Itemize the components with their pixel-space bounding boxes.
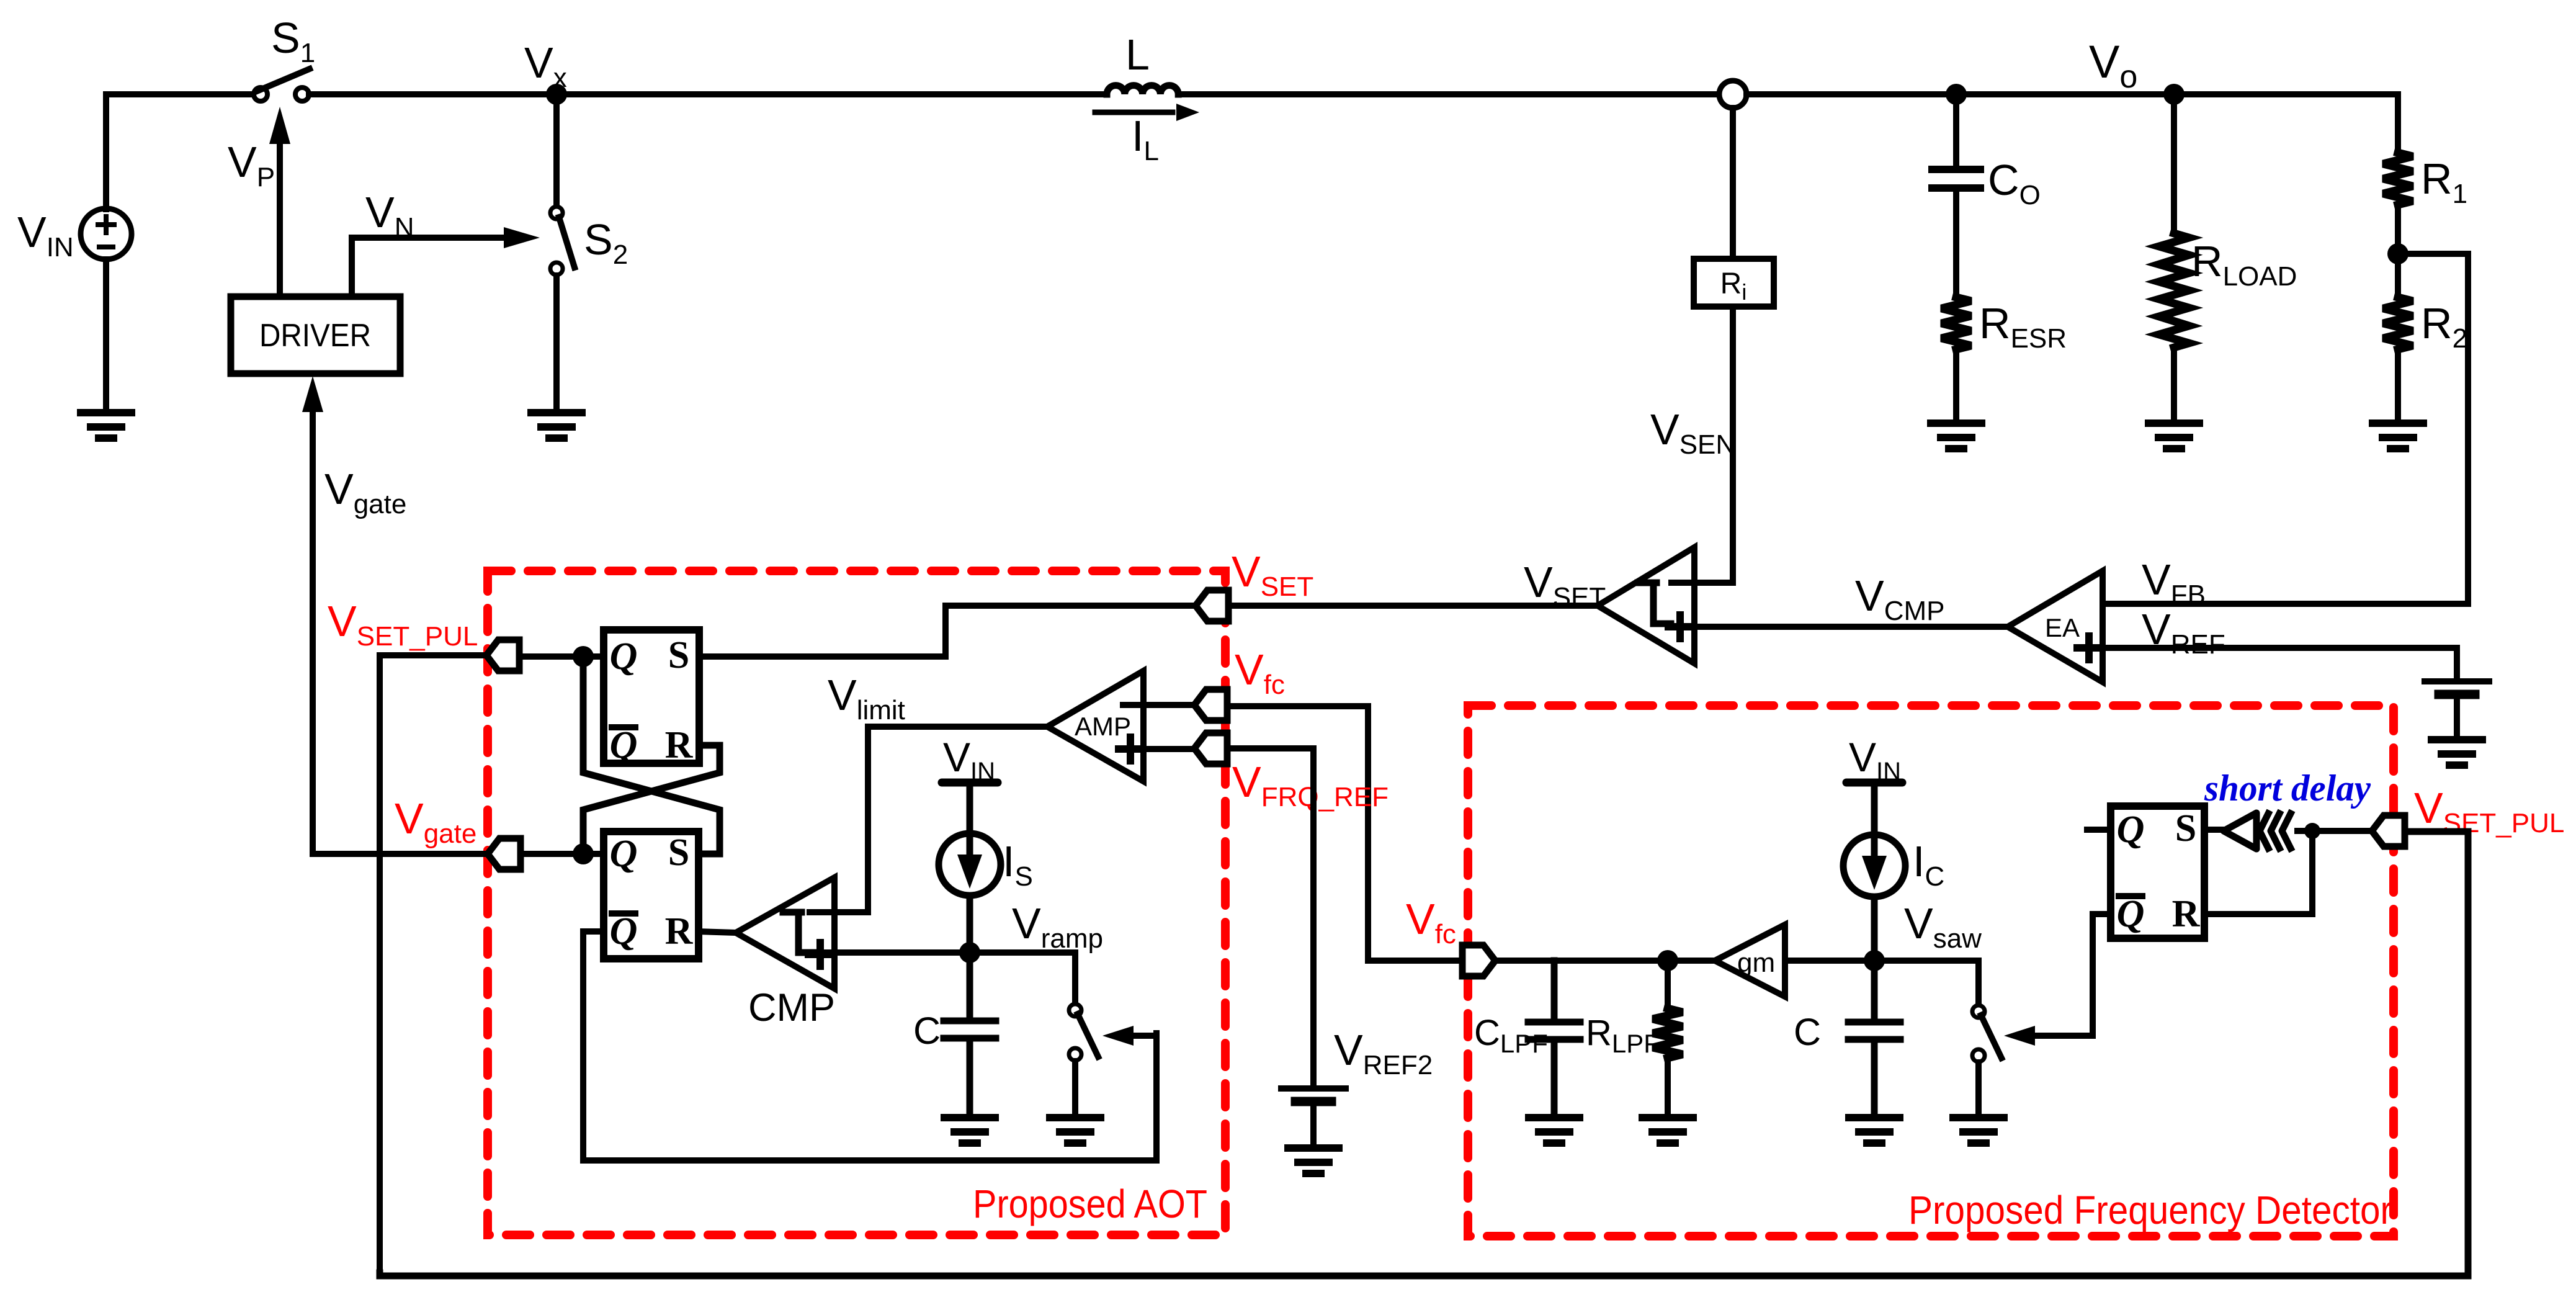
- plus marker (VSET cmp): [1668, 615, 1692, 639]
- op-amp EA: [2008, 571, 2103, 682]
- svg-text:R: R: [665, 724, 694, 766]
- svg-text:Vfc: Vfc: [1235, 645, 1285, 700]
- svg-text:VN: VN: [365, 188, 414, 243]
- wire Vx to S2: [553, 104, 560, 203]
- svg-text:VREF: VREF: [2142, 605, 2225, 660]
- switch S2: [550, 207, 575, 275]
- resistor R1: [2383, 153, 2413, 205]
- source VIN: [81, 209, 132, 411]
- comparator CMP: [736, 877, 834, 989]
- block DRIVER: [231, 297, 400, 374]
- current source IS: [939, 833, 1001, 895]
- wire switch to ground (AOT): [1072, 1061, 1078, 1116]
- wire VREF input: [2103, 648, 2457, 678]
- svg-text:VP: VP: [228, 138, 275, 192]
- svg-text:VFB: VFB: [2142, 555, 2206, 610]
- capacitor C (AOT): [944, 953, 996, 1116]
- ground (C FD): [1849, 1118, 1900, 1143]
- svg-text:Proposed AOT: Proposed AOT: [973, 1182, 1207, 1226]
- wire VFB from divider to EA: [2103, 254, 2468, 604]
- wire switch to ground (FD): [1975, 1062, 1982, 1116]
- arrow switch control (AOT): [1126, 1033, 1156, 1039]
- latch U2 (AOT one-shot bottom): [604, 832, 699, 959]
- wire VN from driver: [352, 238, 509, 295]
- svg-text:S1: S1: [271, 14, 315, 68]
- svg-text:VCMP: VCMP: [1855, 572, 1944, 626]
- wire IC to Vsaw node: [1871, 897, 1878, 961]
- wire Vramp to reset switch: [970, 953, 1075, 1003]
- wire junction down to R input (U3): [2204, 831, 2312, 914]
- plus marker (CMP): [808, 943, 832, 966]
- svg-text:Ri: Ri: [1720, 267, 1747, 305]
- wire Vsaw to reset switch (FD): [1874, 961, 1979, 1005]
- amplifier gm: [1715, 925, 1785, 997]
- wire S input (U1) jog to VSET: [699, 653, 946, 660]
- arrowhead VN: [504, 227, 540, 248]
- wire gm input from Vsaw node: [1785, 958, 1979, 964]
- wire VSET_PUL bottom rail: [380, 832, 2468, 1276]
- wire Qbar (U3) to switch control: [2028, 914, 2111, 1036]
- cross-coupling Q(U1) to S(U2): [583, 657, 720, 854]
- svg-text:short delay: short delay: [2204, 768, 2371, 809]
- svg-text:VSET: VSET: [1232, 547, 1313, 602]
- ground (RESR): [1931, 423, 1982, 449]
- capacitor C (FD): [1848, 961, 1900, 1116]
- ground (CLPF): [1529, 1118, 1580, 1143]
- inductor L: [1107, 86, 1178, 94]
- wire Q output (U1) to port: [515, 653, 604, 660]
- port Vfc (AOT right): [1194, 689, 1227, 720]
- delay element (short delay buffer): [2224, 813, 2291, 849]
- svg-text:DRIVER: DRIVER: [259, 318, 371, 354]
- latch U3 (FD): [2111, 806, 2204, 938]
- wire CMP output to R (U2): [699, 931, 736, 933]
- wire Qbar (U2) to switch control: [583, 931, 1156, 1160]
- op-amp AMP: [1047, 671, 1143, 781]
- svg-text:Q: Q: [2117, 893, 2145, 935]
- svg-text:C: C: [913, 1010, 941, 1052]
- wire Vlimit (AMP out to CMP minus): [810, 727, 1047, 912]
- wire Q stub (U3): [2087, 827, 2111, 833]
- svg-text:VREF2: VREF2: [1334, 1026, 1433, 1080]
- wire AMP minus to Vfc port: [1123, 702, 1194, 708]
- wire S1 to Vx: [309, 91, 1107, 97]
- svg-text:Q: Q: [610, 833, 638, 875]
- node Vramp: [959, 942, 980, 963]
- battery VREF2: [1281, 1085, 1346, 1092]
- svg-text:VSET_PUL: VSET_PUL: [328, 597, 478, 652]
- svg-text:S2: S2: [584, 215, 628, 270]
- plus marker EA: [2077, 636, 2101, 660]
- wire L to sense node: [1178, 91, 1719, 97]
- port Vfc (FD left): [1462, 945, 1495, 976]
- capacitor CLPF: [1528, 961, 1580, 1116]
- capacitor CO: [1932, 94, 1980, 297]
- resistor RLPF: [1665, 961, 1671, 1008]
- switch reset (FD): [1972, 1005, 2001, 1062]
- wire Vfc down to FD: [1227, 706, 1468, 961]
- arrow IL: [1095, 110, 1173, 115]
- svg-text:Vsaw: Vsaw: [1904, 899, 1982, 954]
- wire VSET_PUL to bottom rail: [380, 655, 486, 1273]
- node delay/R junction: [2304, 823, 2320, 839]
- port VSET_PUL (AOT left): [486, 640, 519, 671]
- svg-text:IL: IL: [1132, 112, 1159, 166]
- wire AMP plus to VFRQ_REF port: [1143, 746, 1194, 752]
- svg-text:IC: IC: [1913, 837, 1944, 892]
- node Co junction: [1946, 84, 1967, 105]
- wire top rail VIN to S1: [106, 94, 251, 209]
- ground (VIN): [81, 413, 132, 438]
- wire VSEN: [1730, 307, 1736, 583]
- wire rail corner down to R1: [2395, 94, 2398, 153]
- wire sense node down to Ri: [1730, 108, 1736, 259]
- node Vo: [2163, 84, 2185, 105]
- supply VIN (IS): [942, 779, 998, 787]
- svg-text:S: S: [668, 832, 689, 874]
- svg-text:R: R: [2172, 893, 2201, 935]
- svg-text:Q: Q: [2117, 809, 2145, 851]
- box Proposed AOT (dashed): [488, 571, 1225, 1235]
- wire VSEN into minus input: [1671, 580, 1733, 586]
- node RLPF junction: [1657, 950, 1678, 971]
- arrow VP into S1: [269, 107, 290, 295]
- svg-text:IS: IS: [1003, 837, 1033, 892]
- svg-text:Vgate: Vgate: [395, 794, 476, 849]
- ground (C AOT): [944, 1118, 995, 1143]
- svg-text:Q: Q: [610, 635, 638, 678]
- svg-text:S: S: [668, 634, 689, 676]
- ground (R2): [2373, 423, 2423, 449]
- ground (VREF): [2431, 740, 2482, 765]
- svg-text:AMP: AMP: [1075, 712, 1131, 741]
- port VSET_PUL (FD right): [2372, 815, 2405, 846]
- wire Q output (U2) to port: [515, 851, 604, 857]
- current source IC: [1843, 835, 1905, 897]
- svg-text:CMP: CMP: [748, 986, 835, 1030]
- wire IS to Vramp node: [967, 895, 973, 953]
- ground (AOT switch): [1050, 1118, 1101, 1143]
- svg-text:Vx: Vx: [524, 38, 567, 93]
- arrow switch control (FD): [2004, 1026, 2035, 1046]
- svg-text:L: L: [1125, 30, 1150, 79]
- resistor Ri (box): [1694, 259, 1774, 307]
- svg-text:VIN: VIN: [943, 734, 995, 785]
- svg-text:CO: CO: [1988, 156, 2041, 210]
- wire S input from delay: [2204, 827, 2224, 833]
- hysteresis marker (CMP): [783, 912, 816, 953]
- wire delay to VSET_PUL port: [2297, 828, 2372, 834]
- svg-text:Q: Q: [610, 724, 638, 766]
- svg-text:Proposed Frequency Detector: Proposed Frequency Detector: [1908, 1188, 2392, 1232]
- wire VCMP: [1670, 624, 2008, 630]
- switch S1: [254, 69, 310, 101]
- svg-text:RLOAD: RLOAD: [2191, 237, 2297, 292]
- svg-text:Vgate: Vgate: [324, 465, 406, 519]
- svg-text:VSEN: VSEN: [1650, 405, 1735, 460]
- svg-text:Vlimit: Vlimit: [828, 671, 905, 725]
- wire VFRQ_REF to VREF2: [1227, 748, 1313, 1085]
- ground (RLPF): [1642, 1118, 1693, 1143]
- wire sense node to Vo rail: [1746, 91, 2398, 97]
- ground (VREF2): [1288, 1148, 1339, 1173]
- switch reset (AOT): [1069, 1004, 1098, 1061]
- plus marker (AMP): [1119, 737, 1142, 761]
- latch U1 (AOT one-shot top): [604, 630, 699, 763]
- comparator VSET: [1598, 547, 1694, 663]
- node sense (open circle): [1719, 81, 1746, 108]
- ground (RLOAD): [2149, 423, 2199, 449]
- ground (S2): [531, 413, 582, 438]
- battery VREF: [2425, 678, 2489, 684]
- svg-text:RLPF: RLPF: [1586, 1013, 1660, 1058]
- svg-text:R1: R1: [2421, 155, 2467, 209]
- port VSET (AOT top right): [1196, 590, 1228, 621]
- resistor RLOAD: [2171, 104, 2177, 233]
- node Vsaw: [1864, 950, 1885, 971]
- node R1/R2: [2387, 243, 2408, 264]
- resistor RESR: [1941, 297, 1971, 349]
- svg-text:Vramp: Vramp: [1012, 899, 1103, 954]
- svg-text:S: S: [2175, 807, 2196, 850]
- svg-text:VIN: VIN: [17, 208, 74, 262]
- svg-text:R: R: [665, 910, 694, 953]
- ground (FD switch): [1953, 1118, 2004, 1143]
- port VFRQ_REF (AOT right): [1194, 733, 1227, 764]
- wire S2 to ground: [553, 276, 560, 411]
- wire Vgate to DRIVER: [313, 408, 488, 854]
- box Proposed Frequency Detector (dashed): [1468, 706, 2394, 1236]
- cross-coupling R(U1) to Q(U2): [583, 745, 720, 854]
- svg-text:Q: Q: [610, 910, 638, 953]
- svg-text:Vo: Vo: [2089, 36, 2137, 95]
- supply VIN (IC): [1846, 779, 1902, 787]
- svg-text:VIN: VIN: [1849, 734, 1901, 785]
- svg-text:EA: EA: [2045, 613, 2080, 642]
- wire Vramp to CMP plus: [813, 949, 970, 956]
- node Vgate junction: [573, 843, 594, 864]
- wire Vfc bus inside FD: [1495, 958, 1715, 964]
- hysteresis marker (VSET cmp): [1638, 583, 1671, 624]
- svg-text:R2: R2: [2421, 299, 2467, 354]
- node Vx: [546, 84, 567, 105]
- node VSET_PUL junction: [573, 646, 594, 667]
- svg-text:Vfc: Vfc: [1406, 895, 1456, 949]
- svg-text:RESR: RESR: [1979, 299, 2067, 354]
- svg-text:gm: gm: [1737, 948, 1775, 978]
- svg-text:C: C: [1794, 1011, 1821, 1053]
- wire VSET output to AOT: [946, 606, 1598, 657]
- arrow Vgate into DRIVER: [302, 376, 323, 412]
- resistor R2: [2395, 254, 2401, 297]
- port Vgate (AOT left): [488, 838, 521, 869]
